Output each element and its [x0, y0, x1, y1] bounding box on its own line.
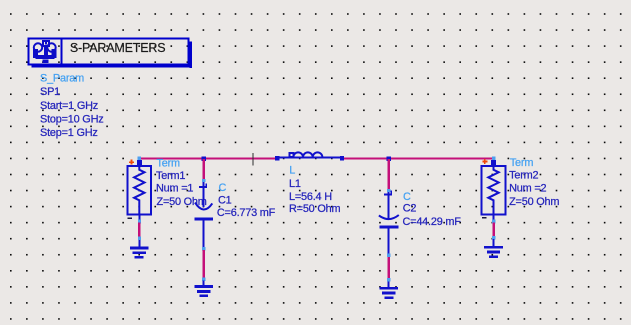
- wire: C2 pin 2 down to ground: [387, 257, 390, 287]
- svg-text:S-PARAMETERS: S-PARAMETERS: [70, 41, 165, 55]
- ground symbol below Term2: [484, 246, 503, 258]
- tick mark on wire: [252, 153, 253, 166]
- svg-text:C=6.773 mF: C=6.773 mF: [217, 207, 276, 219]
- S-parameter simulation controller icon: [33, 41, 57, 63]
- wire: Term1 pin 2 down to ground: [138, 215, 141, 247]
- svg-text:C1: C1: [218, 195, 232, 207]
- node B junction square (wire to C2): [387, 157, 392, 162]
- minus polarity marker of Term2: [482, 217, 486, 219]
- svg-text:SP1: SP1: [40, 86, 60, 98]
- minus polarity marker of Term1: [128, 217, 132, 219]
- node square at Term2 pin 1: [491, 160, 496, 165]
- svg-text:Start=1 GHz: Start=1 GHz: [40, 100, 98, 112]
- svg-text:Z=50 Ohm: Z=50 Ohm: [157, 196, 207, 208]
- svg-text:C: C: [403, 191, 411, 203]
- svg-text:Term: Term: [510, 157, 534, 169]
- svg-text:Term2: Term2: [509, 170, 538, 182]
- node A junction square (wire to C1): [202, 157, 207, 162]
- svg-text:Num =2: Num =2: [509, 182, 546, 194]
- svg-text:Num =1: Num =1: [156, 182, 193, 194]
- svg-text:L1: L1: [289, 178, 301, 190]
- plus polarity marker of Term1: [129, 160, 134, 165]
- wire: node A down to capacitor C1: [203, 159, 205, 179]
- capacitor C1 symbol (curved plate, crossbar and straight plate): [195, 182, 214, 247]
- wire: node B to Term2 pin: [390, 158, 493, 160]
- svg-text:C=44.29 mF: C=44.29 mF: [403, 216, 462, 228]
- pin square (cyan) at Term1 pin 1: [138, 156, 141, 160]
- wire: node B down to capacitor C2: [388, 159, 390, 189]
- pin square (cyan) at Term2 pin 1: [492, 156, 495, 160]
- pin square (cyan) at C1 pin 2: [202, 247, 205, 251]
- node square at Term1 pin 1: [137, 160, 142, 165]
- port Term2 (resistor symbol in box): [482, 160, 506, 215]
- plus polarity marker of Term2: [482, 159, 487, 164]
- pin square (cyan) at C2 pin 1: [387, 189, 390, 192]
- wire: Term2 pin 2 down to ground: [492, 215, 495, 246]
- ground symbol below Term1: [130, 247, 149, 259]
- port Term1 (resistor symbol in box): [127, 160, 151, 215]
- svg-text:R=50 Ohm: R=50 Ohm: [289, 203, 340, 215]
- capacitor C2 symbol (curved plate, crossbar and straight plate): [379, 191, 399, 254]
- svg-text:Step=1 GHz: Step=1 GHz: [40, 127, 98, 139]
- wire: Term1 pin to node A: [141, 158, 205, 160]
- S-parameter simulation controller box frame: [29, 39, 193, 69]
- svg-text:Term1: Term1: [156, 170, 185, 182]
- ground symbol below C2: [380, 287, 399, 299]
- svg-text:C: C: [219, 182, 227, 194]
- svg-text:L=56.4 H: L=56.4 H: [289, 191, 332, 203]
- pin square (cyan) at C1 pin 1: [202, 179, 205, 182]
- pin square (cyan) at C2 pin 2: [387, 253, 390, 257]
- ground symbol below C1: [194, 285, 213, 297]
- svg-text:Z=50 Ohm: Z=50 Ohm: [509, 196, 559, 208]
- wire: C1 pin 2 down to ground: [202, 250, 205, 286]
- svg-text:S_Param: S_Param: [40, 72, 84, 84]
- wire: inductor L1 pin 2 to node B: [343, 158, 390, 160]
- inductor L1: [275, 152, 344, 160]
- wire: node A to inductor L1 pin 1: [205, 158, 276, 160]
- svg-text:C2: C2: [403, 203, 417, 215]
- svg-text:Stop=10 GHz: Stop=10 GHz: [40, 114, 103, 126]
- svg-text:L: L: [289, 165, 295, 177]
- svg-text:Term: Term: [157, 157, 181, 169]
